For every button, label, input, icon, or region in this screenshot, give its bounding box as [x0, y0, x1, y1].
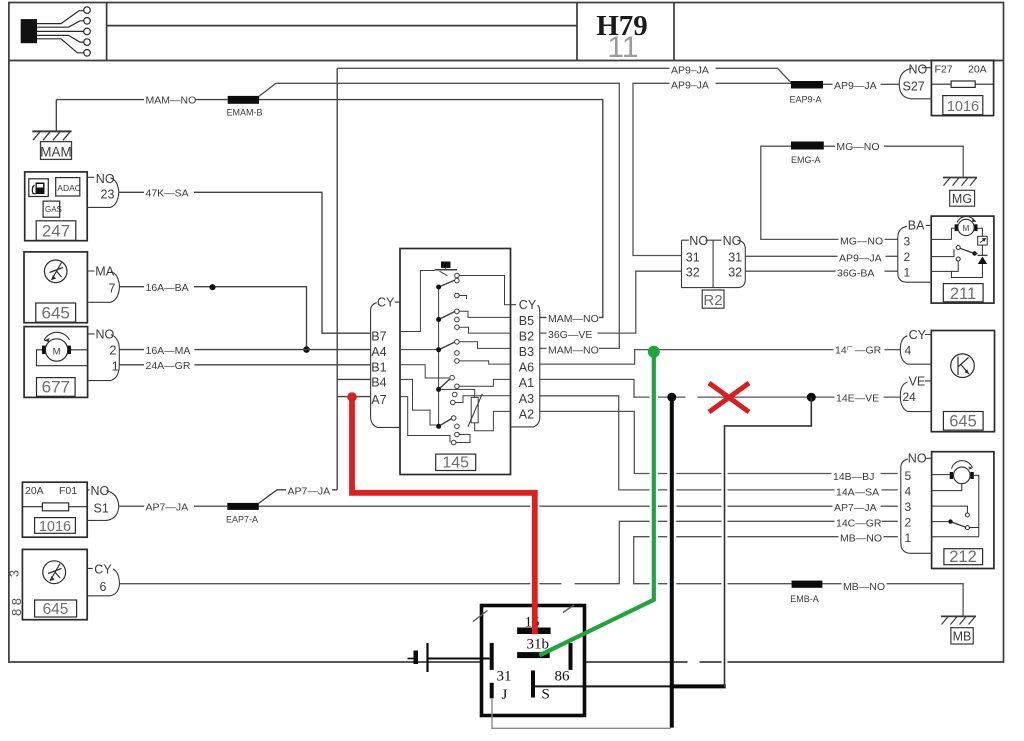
- svg-text:14: 14: [835, 345, 847, 357]
- svg-text:M: M: [53, 346, 61, 357]
- svg-text:MAM: MAM: [40, 145, 72, 160]
- black annotation wire down to relay area: [670, 397, 674, 727]
- svg-text:1: 1: [904, 265, 911, 279]
- relay pin 31b bar: [517, 652, 550, 658]
- svg-text:31: 31: [728, 250, 742, 264]
- wire 16A-MA from 677 pin2 to 145 pin A4: [119, 349, 370, 351]
- wire 16A-BA from 645 pin7 down to junction on A4 row: [120, 287, 307, 350]
- splice EMB-A: [792, 581, 823, 588]
- relay pin 15 bar: [517, 628, 551, 635]
- svg-text:1: 1: [112, 359, 119, 373]
- svg-text:S27: S27: [903, 80, 925, 94]
- wire label 16A-MA: [144, 344, 195, 357]
- svg-text:14E—VE: 14E—VE: [836, 393, 879, 405]
- relay corner tick marks: [473, 605, 574, 622]
- 211 switch contacts: [956, 246, 960, 250]
- 211 internal wires: [931, 228, 982, 277]
- svg-text:5: 5: [905, 469, 912, 483]
- svg-text:14B—BJ: 14B—BJ: [833, 471, 874, 483]
- K icon strokes: [958, 357, 969, 376]
- svg-text:145: 145: [442, 455, 469, 472]
- svg-text:GAS: GAS: [45, 205, 62, 214]
- svg-text:86: 86: [555, 669, 571, 685]
- svg-text:VE: VE: [909, 374, 926, 388]
- pin bracket CY/4 of 645 right: [900, 335, 931, 365]
- relay pin J terminal: [490, 683, 494, 699]
- wire label AP9-JA row2: [670, 79, 716, 92]
- component 1016 fuse 20A F01: [22, 482, 87, 537]
- wire label MB-NO at 212 pin1: [839, 531, 884, 544]
- svg-text:MG: MG: [952, 192, 972, 206]
- component 645 bottom-left: [22, 549, 87, 619]
- wire label 14A-SA: [835, 485, 882, 498]
- relay pin 86 terminal: [569, 643, 573, 670]
- wire label 14E-VE: [835, 391, 884, 404]
- svg-text:BA: BA: [908, 219, 925, 233]
- svg-text:7: 7: [109, 281, 116, 295]
- component 645 top-left: [24, 252, 87, 323]
- wire AP9-JA row1 from vertical x337 to splice EAP9-A: [337, 68, 791, 82]
- svg-text:B7: B7: [371, 329, 386, 343]
- pin bracket NO/S27 of F27: [899, 68, 931, 99]
- svg-text:B1: B1: [371, 360, 386, 374]
- black annotation wire branch to x724: [670, 684, 726, 688]
- svg-text:3: 3: [904, 234, 911, 248]
- svg-text:31b: 31b: [527, 636, 550, 652]
- wire label 14?-GR (partly erased): [834, 343, 885, 356]
- svg-text:AP9—JA: AP9—JA: [839, 253, 882, 265]
- 212 motor brushes arc: [950, 472, 953, 479]
- svg-text:4: 4: [905, 484, 912, 498]
- svg-text:EMB-A: EMB-A: [790, 594, 819, 604]
- wire EMAM-B branch up to row y83 and down to pin B3: [259, 83, 619, 348]
- wire R2 pin31 right to 211 pin2: [745, 255, 898, 257]
- component 212 heater/pump unit: [932, 452, 994, 569]
- 645 bottom icon strokes: [48, 564, 62, 582]
- ground MB: [941, 616, 976, 644]
- svg-text:14A—SA: 14A—SA: [836, 486, 879, 498]
- 145 left pin bracket: [371, 302, 400, 427]
- junction dot on 16A-BA: [209, 284, 215, 290]
- 211 thermal box: [978, 236, 988, 245]
- svg-text:1016: 1016: [947, 99, 979, 115]
- relay pin S terminal: [531, 671, 535, 698]
- svg-text:CY: CY: [94, 563, 112, 577]
- svg-text:645: 645: [42, 304, 70, 323]
- wire label MAM-NO left: [144, 94, 196, 107]
- svg-text:NO: NO: [689, 234, 708, 248]
- wire AP9-JA row2 from splice EAP9-A down to R2 pin31: [633, 83, 791, 255]
- 145 interior contact circles: [450, 273, 459, 445]
- wire 47K-SA from 247 pin23 to 145 pin B7: [119, 192, 371, 333]
- wire label MAM-NO at B3: [547, 343, 600, 356]
- 211 motor brushes arc M: [955, 224, 958, 231]
- svg-text:31: 31: [686, 250, 700, 264]
- svg-text:36G—VE: 36G—VE: [548, 329, 592, 341]
- pin bracket NO/S1 of fuse: [87, 490, 119, 521]
- svg-text:NO: NO: [909, 63, 928, 77]
- svg-text:MB—NO: MB—NO: [840, 533, 882, 545]
- svg-text:CY: CY: [519, 298, 537, 312]
- component 677 motor: [24, 327, 88, 398]
- svg-text:AP9–JA: AP9–JA: [671, 65, 709, 77]
- svg-text:B2: B2: [519, 330, 534, 344]
- svg-text:EAP7-A: EAP7-A: [226, 515, 258, 525]
- svg-text:CY: CY: [909, 328, 927, 342]
- svg-text:31: 31: [497, 669, 512, 685]
- svg-text:B4: B4: [371, 376, 386, 390]
- wire AP7-JA main row from fuse S1 to 212 pin3: [119, 505, 898, 507]
- pin bracket MA/7 of 645: [87, 271, 119, 302]
- white-out gap on 645 pin6 row: [562, 580, 575, 587]
- svg-text:14C—GR: 14C—GR: [836, 517, 882, 529]
- red annotation junction dot at A7: [347, 392, 357, 402]
- svg-text:—GR: —GR: [855, 345, 882, 357]
- ground MG: [943, 178, 977, 207]
- junction dot on 16A-MA row: [303, 346, 310, 353]
- wire battery to relay pin31: [428, 658, 490, 660]
- svg-text:20A: 20A: [25, 485, 44, 497]
- pin bracket VE/24 of 645 right: [900, 381, 931, 412]
- battery symbol at relay left: [426, 643, 428, 672]
- 212 switch: [965, 513, 969, 517]
- splice EAP7-A: [227, 503, 258, 510]
- svg-text:211: 211: [950, 285, 976, 303]
- svg-text:212: 212: [949, 548, 977, 566]
- pin bracket NO/2/1 of 677: [88, 334, 120, 381]
- svg-text:A3: A3: [519, 392, 534, 406]
- header connector icon: [21, 7, 91, 56]
- wire label MB-NO at splice: [842, 579, 887, 592]
- svg-text:16A—BA: 16A—BA: [146, 282, 189, 294]
- wire MG-NO from splice to ground MG: [824, 146, 963, 177]
- svg-text:MG—NO: MG—NO: [840, 236, 883, 248]
- green annotation wire down to relay pin 31b: [540, 352, 654, 656]
- svg-text:S1: S1: [94, 501, 109, 515]
- wire B2 row to R2 pin32: [540, 271, 682, 333]
- splice EMAM-B: [228, 96, 259, 104]
- wire MG-NO from 211 pin3 up to splice EMG-A: [761, 146, 898, 239]
- wire label 47K-SA: [144, 186, 194, 199]
- svg-text:24A—GR: 24A—GR: [146, 360, 191, 372]
- svg-text:32: 32: [686, 265, 700, 279]
- thin black rerouting wire from right dot down and left: [725, 397, 812, 687]
- svg-text:EMG-A: EMG-A: [791, 155, 821, 165]
- 211 diode: [978, 254, 988, 256]
- svg-text:CY: CY: [377, 295, 395, 309]
- svg-text:1016: 1016: [39, 519, 71, 535]
- svg-text:EAP9-A: EAP9-A: [790, 94, 822, 104]
- wire MB-NO from splice to ground MB: [822, 584, 963, 616]
- wire label 36G-VE at B2: [547, 328, 598, 341]
- svg-text:677: 677: [42, 378, 70, 397]
- svg-text:NO: NO: [96, 328, 115, 342]
- pin bracket NO/23 of 247: [87, 177, 119, 207]
- 145 interior switch drawing: [400, 262, 511, 443]
- wire A3 row to 212 pin4 (14A-SA): [540, 396, 898, 490]
- 145 right pin bracket: [511, 305, 540, 427]
- white-out gap on frame bottom: [688, 659, 700, 666]
- svg-text:2: 2: [905, 515, 912, 529]
- pin bracket CY/6 of 645 bottom-left: [87, 568, 119, 595]
- svg-text:2: 2: [904, 250, 911, 264]
- wire MAM-NO to splice EMAM-B and down to pin B5: [56, 100, 603, 318]
- svg-text:1: 1: [905, 531, 912, 545]
- svg-text:2: 2: [110, 344, 117, 358]
- wire from relay pin J down to black line end: [492, 698, 671, 728]
- svg-text:F27: F27: [935, 64, 953, 76]
- svg-text:AP7—JA: AP7—JA: [834, 502, 877, 514]
- wire label AP9-JA row1: [670, 64, 716, 77]
- svg-text:B3: B3: [519, 345, 534, 359]
- black annotation junction dot on 14E-VE (left of cut): [667, 393, 676, 402]
- fuel pump icon: [32, 183, 44, 195]
- svg-text:23: 23: [101, 187, 115, 201]
- svg-text:645: 645: [43, 601, 69, 618]
- wire R2 pin32 right to 211 pin1: [745, 270, 898, 272]
- white halo under black annotation wire: [667, 403, 676, 656]
- wire stub A7 row: [337, 396, 370, 398]
- svg-text:NO: NO: [91, 484, 110, 498]
- pin bracket BA/3/2/1 of 211: [898, 225, 931, 282]
- component 211 lock actuator: [931, 216, 994, 303]
- svg-text:3: 3: [905, 500, 912, 514]
- component 145 column switch unit: [400, 249, 511, 475]
- svg-text:A1: A1: [519, 376, 534, 390]
- wire AP7-JA branch label link: [259, 490, 337, 503]
- wire stub B4 row: [337, 378, 370, 380]
- svg-text:AP7—JA: AP7—JA: [146, 502, 189, 514]
- wire label AP9-JA to S27: [833, 79, 881, 92]
- red X cut mark on 14E-VE wire: [709, 383, 749, 412]
- svg-text:EMAM-B: EMAM-B: [227, 107, 263, 117]
- wire CY6 from 645 bottom-left to 14C-GR row into 212 pin2: [120, 521, 898, 583]
- 212 internal wires: [932, 475, 979, 537]
- component F27 fuse box 1016 top-right: [931, 60, 993, 115]
- wire label 24A-GR: [144, 359, 195, 372]
- wire label AP7-JA main: [144, 500, 194, 513]
- wire 24A-GR from 677 pin1 to 145 pin B1: [119, 364, 370, 366]
- svg-text:F01: F01: [59, 485, 77, 497]
- svg-text:MB: MB: [953, 630, 972, 644]
- svg-text:16A—MA: 16A—MA: [146, 345, 191, 357]
- title block H79 / 11: [596, 10, 648, 64]
- svg-text:MG—NO: MG—NO: [836, 141, 879, 153]
- wire label AP7-JA branch: [286, 484, 332, 497]
- black junction dot on 14E-VE (right of cut): [807, 393, 816, 402]
- svg-text:NO: NO: [908, 451, 927, 465]
- svg-text:A6: A6: [519, 361, 534, 375]
- svg-text:NO: NO: [96, 172, 115, 186]
- 645 icon strokes: [50, 263, 64, 281]
- component 645 right (K unit): [931, 331, 994, 432]
- pin bracket NO/5/4/3/2/1 of 212: [901, 458, 932, 553]
- svg-text:MB—NO: MB—NO: [843, 581, 885, 593]
- svg-text:3: 3: [7, 570, 22, 577]
- wire label AP7-JA at 212 pin3: [833, 501, 881, 514]
- vertical wire x337 (AP9 feed to B4 / AP7 branch to A7): [336, 68, 338, 490]
- red annotation wire from A7 to relay pin 15: [352, 397, 535, 634]
- svg-text:A4: A4: [371, 345, 386, 359]
- svg-text:AP7—JA: AP7—JA: [288, 486, 331, 498]
- wire label 36G-BA at 211 pin1: [836, 266, 885, 279]
- svg-text:S: S: [542, 687, 550, 703]
- svg-text:M: M: [963, 224, 970, 233]
- white halo under thin rerouting wire: [722, 432, 728, 680]
- wire label MG-NO top: [835, 140, 884, 153]
- component 247 fuel gauge unit: [25, 172, 87, 241]
- svg-text:AP9—JA: AP9—JA: [834, 80, 877, 92]
- svg-text:MAM—NO: MAM—NO: [548, 345, 599, 357]
- svg-text:6: 6: [100, 580, 107, 594]
- connector R2: [682, 240, 746, 308]
- svg-text:47K—SA: 47K—SA: [146, 187, 189, 199]
- svg-text:ADAC: ADAC: [57, 183, 81, 193]
- wire MB-NO from 212 pin1 down to splice EMB-A: [634, 537, 898, 584]
- wire from relay pin S to black annotation line: [535, 685, 672, 687]
- white halo under green annotation wire: [650, 358, 659, 599]
- ground MAM: [32, 100, 71, 160]
- wire label MAM-NO at B5: [547, 312, 600, 325]
- relay box (annotation): [482, 606, 585, 716]
- svg-text:R2: R2: [703, 292, 722, 309]
- 145 interior pivots: [436, 285, 441, 429]
- 677 internal wires: [37, 350, 88, 366]
- wire label 14C-GR: [835, 516, 882, 529]
- white-out gap on 14E-VE row: [686, 394, 698, 401]
- svg-text:11: 11: [607, 31, 638, 64]
- svg-text:24: 24: [903, 390, 917, 404]
- 677 motor brushes and arc: [42, 346, 45, 354]
- wire label MG-NO at 211 pin3: [839, 234, 885, 247]
- svg-text:MAM—NO: MAM—NO: [548, 313, 599, 325]
- green annotation junction dot on 14-GR wire: [648, 346, 660, 358]
- splice EAP9-A: [791, 81, 823, 89]
- wire AP9-JA from splice to fuse pin S27: [823, 83, 899, 85]
- svg-text:8 8: 8 8: [9, 598, 24, 616]
- wire label 16A-BA: [144, 281, 194, 294]
- svg-text:4: 4: [905, 344, 912, 358]
- relay pin 31 terminal: [490, 643, 494, 670]
- svg-text:NO: NO: [723, 234, 742, 248]
- svg-text:MA: MA: [95, 265, 114, 279]
- svg-text:A2: A2: [519, 408, 534, 422]
- wire A6 row to 645 pin4 (14?-GR): [540, 350, 901, 365]
- white halo under red annotation wire: [352, 403, 535, 600]
- svg-text:MAM—NO: MAM—NO: [146, 95, 197, 107]
- svg-text:645: 645: [949, 412, 977, 430]
- wire label 14B-BJ: [832, 470, 881, 483]
- wire A2 row to 212 pin5 (14B-BJ): [540, 411, 898, 473]
- svg-text:36G-BA: 36G-BA: [837, 268, 874, 280]
- svg-text:20A: 20A: [968, 64, 987, 76]
- wire A1 row to 645 pin24 (14E-VE): [540, 379, 901, 397]
- svg-text:AP9–JA: AP9–JA: [671, 80, 709, 92]
- wire label AP9-JA at 211 pin2: [838, 251, 886, 264]
- svg-text:32: 32: [728, 265, 742, 279]
- svg-text:J: J: [502, 687, 508, 703]
- svg-text:247: 247: [42, 222, 70, 241]
- svg-text:B5: B5: [519, 314, 534, 328]
- splice EMG-A: [791, 142, 824, 150]
- svg-text:A7: A7: [371, 393, 386, 407]
